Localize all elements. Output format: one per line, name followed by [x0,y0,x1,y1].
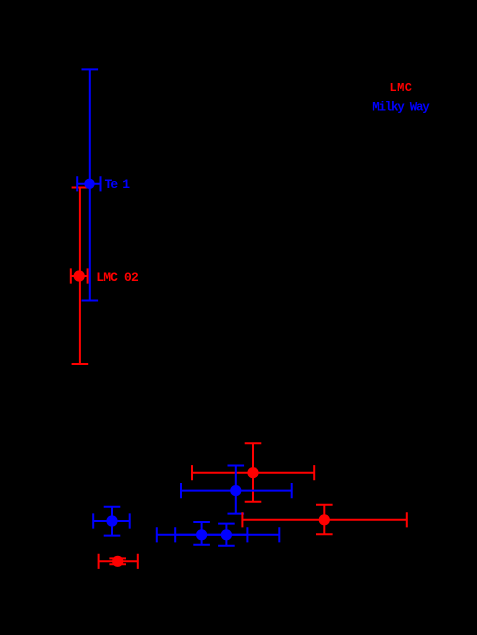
cluster Te 1 (blue, Milky Way) error bars [77,69,100,300]
bottom blue point 2 (centre) error bars [181,466,292,514]
cluster LMC 02 (red, LMC) error bars [71,188,88,365]
cluster LMC 02 (red, LMC) data point [74,270,85,281]
bottom red point 2 (upper centre) data point [247,467,258,478]
bottom blue point 1 error bars [93,507,130,536]
bottom blue point 3 data point [196,529,207,540]
bottom blue point 2 (centre) data point [230,485,241,496]
cluster Te 1 (blue, Milky Way) data point [84,179,94,189]
svg-text:Te 1: Te 1 [105,177,131,192]
bottom blue point 1 data point [106,515,117,526]
bottom red point 3 (right) data point [319,514,330,525]
bottom red point 1 data point [112,556,123,567]
svg-text:Milky Way: Milky Way [372,100,430,114]
bottom red point 3 (right) error bars [242,505,406,534]
bottom red point 1 error bars [99,554,138,569]
svg-text:LMC: LMC [390,81,413,95]
bottom blue point 4 data point [221,529,232,540]
bottom blue point 3 error bars [157,522,248,545]
bottom blue point 4 error bars [175,524,279,546]
svg-text:LMC 02: LMC 02 [96,270,139,285]
bottom red point 2 (upper centre) error bars [192,443,314,502]
